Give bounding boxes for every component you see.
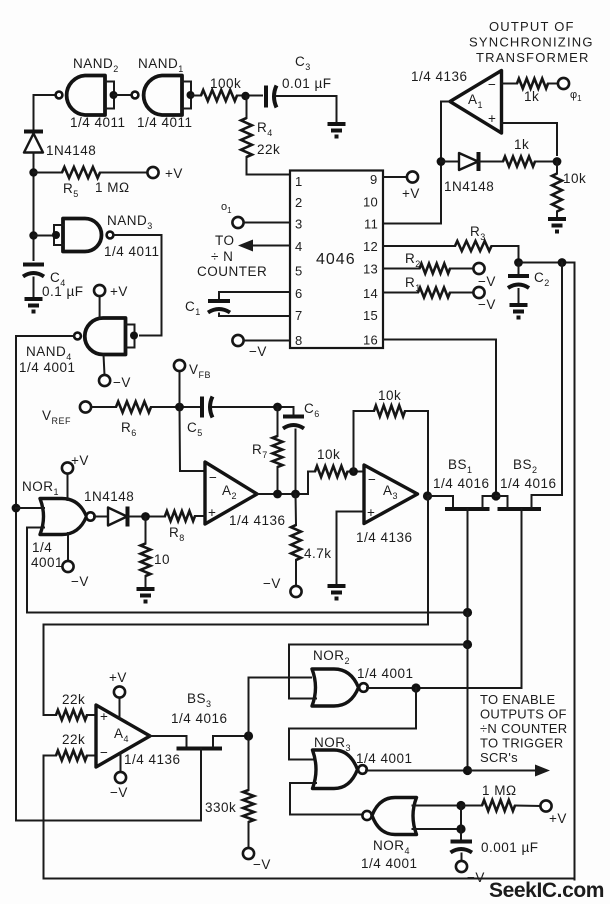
node junction NOR2 output bbox=[411, 683, 420, 692]
gate NOR1 bbox=[40, 499, 95, 535]
wire R3 to C2 node bbox=[492, 246, 519, 263]
wire node to R5 bbox=[34, 172, 63, 174]
wire pin16 to BS1/BS2 node bbox=[383, 340, 496, 497]
wire arrow to SCR trigger bbox=[468, 770, 538, 772]
svg-text:OUTPUT OF: OUTPUT OF bbox=[489, 19, 575, 34]
wire left bus to NAND3 bbox=[33, 196, 35, 260]
wire 330k to -V terminal bbox=[248, 822, 250, 848]
wire A4 +V stem bbox=[119, 698, 121, 719]
wire 22k to A4 plus bbox=[87, 714, 96, 716]
svg-text:1k: 1k bbox=[524, 89, 539, 104]
wire R5 to +V terminal bbox=[100, 172, 148, 174]
wire NOR2 lower input from enable bus bbox=[289, 645, 468, 699]
gate NOR2 bbox=[312, 669, 368, 706]
svg-text:+V: +V bbox=[110, 284, 128, 299]
wire R8 to A2 plus input bbox=[195, 515, 205, 517]
wire C3 to ground bbox=[277, 96, 337, 122]
svg-text:4: 4 bbox=[295, 239, 303, 254]
resistor 10k (A3 feedback) bbox=[374, 406, 405, 417]
wire A3 plus input to ground bbox=[337, 512, 365, 585]
resistor 330k bbox=[243, 790, 254, 822]
svg-text:−: − bbox=[368, 472, 376, 487]
node junction left bus / NOR1 input bbox=[12, 504, 21, 513]
svg-text:10k: 10k bbox=[378, 388, 401, 403]
node junction diode/R8/10 bbox=[141, 512, 150, 521]
gate NOR3 bbox=[313, 750, 367, 789]
wire A3 output to BS1 bbox=[428, 496, 454, 507]
svg-text:÷N COUNTER: ÷N COUNTER bbox=[480, 721, 567, 736]
wire diode to 1k bbox=[479, 161, 504, 163]
svg-text:+V: +V bbox=[165, 166, 183, 181]
wire NOR4 upper input bbox=[413, 805, 462, 807]
IC U1 4046 bbox=[290, 171, 383, 349]
wire 10 ohm top lead bbox=[145, 517, 147, 544]
wire C5 to R7/C6 bbox=[213, 406, 294, 408]
resistor 1k (A1 input) bbox=[517, 79, 548, 89]
node junction NOR4 upper input bbox=[456, 801, 465, 810]
resistor R8 bbox=[165, 511, 195, 521]
wire NOR1 -V stem bbox=[67, 533, 69, 561]
capacitor C1 bbox=[208, 301, 230, 313]
terminal +V (R5) bbox=[147, 167, 158, 178]
svg-text:1/4 4136: 1/4 4136 bbox=[356, 530, 413, 545]
svg-text:8: 8 bbox=[295, 333, 303, 348]
wire C5 node to A2 inverting input bbox=[180, 407, 206, 471]
terminal -V (NOR1) bbox=[62, 561, 73, 572]
wire A1 inverting input to 1k bbox=[502, 83, 518, 85]
wire NOR4 lower input bbox=[413, 828, 462, 830]
svg-text:SYNCHRONIZING: SYNCHRONIZING bbox=[469, 35, 594, 50]
wire 10 to ground bbox=[145, 576, 147, 587]
terminal +V (NAND4) bbox=[94, 285, 105, 296]
node junction diode/R5 bbox=[29, 168, 37, 176]
resistor 1k (feedback) bbox=[503, 157, 535, 167]
resistor 10k (A1) bbox=[552, 174, 562, 212]
terminal -V (A4) bbox=[115, 772, 126, 783]
svg-text:0.01 µF: 0.01 µF bbox=[282, 76, 332, 91]
transistor BS3 (1/4 4016 switch) bbox=[177, 736, 249, 821]
node junction BS1 gate / NOR2 lower input bus bbox=[463, 640, 472, 649]
wire NOR1 +V stem bbox=[67, 473, 69, 500]
svg-text:1N4148: 1N4148 bbox=[444, 179, 494, 194]
wire R4 to 4046 pin1 bbox=[247, 157, 291, 175]
wire A4 -V stem bbox=[120, 753, 122, 772]
capacitor C2 bbox=[508, 263, 529, 304]
wire C1 to pin7 bbox=[219, 314, 290, 317]
wire pin4 arrow to divide-N counter bbox=[251, 245, 290, 247]
wire R1 to -V terminal bbox=[450, 292, 474, 294]
wire diode to R5 node bbox=[33, 153, 35, 197]
wire feedback to A3 output bbox=[405, 411, 428, 496]
svg-text:1/4 4001: 1/4 4001 bbox=[356, 751, 413, 766]
wire 1k to phi1 terminal bbox=[548, 83, 558, 85]
svg-text:10k: 10k bbox=[563, 171, 586, 186]
wire 4.7k top lead bbox=[295, 494, 298, 525]
node junction A1 output / diode bbox=[437, 157, 446, 166]
wire node to 10k bbox=[556, 162, 558, 174]
svg-text:1 MΩ: 1 MΩ bbox=[482, 783, 517, 798]
svg-text:1k: 1k bbox=[514, 137, 529, 152]
svg-text:11: 11 bbox=[364, 217, 378, 232]
wire NAND4 -V stem bbox=[104, 355, 105, 376]
ground (C4) bbox=[25, 299, 43, 312]
svg-text:SCR's: SCR's bbox=[480, 750, 518, 765]
terminal -V (R2) bbox=[473, 263, 484, 274]
terminal +V (A4) bbox=[114, 686, 125, 697]
node junction NOR4 lower input bbox=[456, 824, 465, 833]
node junction BS1 gate / NOR1 bus bbox=[463, 608, 472, 617]
svg-text:22k: 22k bbox=[62, 692, 85, 707]
wire NAND2 bracket to NAND1 bubble bbox=[114, 94, 131, 96]
svg-text:13: 13 bbox=[363, 262, 378, 277]
wire C4 to ground bbox=[33, 278, 35, 298]
resistor R5 bbox=[62, 167, 100, 178]
svg-text:−V: −V bbox=[110, 785, 128, 800]
resistor 10k (A3 input) bbox=[315, 466, 348, 477]
svg-text:12: 12 bbox=[363, 239, 378, 254]
wire BS1 gate to NOR2 bus bbox=[467, 613, 469, 645]
resistor 1M (NOR4) bbox=[482, 800, 515, 811]
terminal +V (pin9) bbox=[407, 171, 418, 182]
svg-text:−: − bbox=[100, 745, 108, 760]
resistor 4.7k bbox=[291, 525, 301, 560]
op-amp A4 bbox=[96, 705, 150, 767]
wire 22k to A4 minus bbox=[87, 755, 96, 757]
svg-text:14: 14 bbox=[363, 286, 378, 301]
diode 1N4148 (left bus) bbox=[24, 132, 43, 153]
transistor BS2 (1/4 4016 switch) bbox=[496, 263, 562, 689]
svg-text:0.1 µF: 0.1 µF bbox=[42, 284, 84, 299]
node junction A3 output bbox=[423, 491, 432, 500]
op-amp A2 bbox=[205, 462, 257, 524]
transistor BS1 (1/4 4016 switch) bbox=[445, 496, 496, 613]
op-amp A1 (points left) bbox=[450, 71, 502, 134]
svg-text:+V: +V bbox=[71, 453, 89, 468]
svg-text:1/4 4136: 1/4 4136 bbox=[124, 752, 181, 767]
svg-text:1N4148: 1N4148 bbox=[46, 143, 96, 158]
wire R2 to -V terminal bbox=[450, 268, 474, 270]
ground (A3 plus) bbox=[328, 586, 346, 599]
svg-text:−V: −V bbox=[71, 574, 89, 589]
svg-text:−V: −V bbox=[249, 344, 267, 359]
svg-text:1/4 4001: 1/4 4001 bbox=[361, 856, 418, 871]
svg-text:−V: −V bbox=[113, 375, 131, 390]
wire A2 output to A3 input bbox=[257, 472, 315, 495]
svg-text:15: 15 bbox=[363, 308, 378, 323]
svg-text:1/4 4001: 1/4 4001 bbox=[357, 666, 414, 681]
svg-text:−V: −V bbox=[467, 870, 485, 885]
svg-text:1/4 4016: 1/4 4016 bbox=[171, 711, 228, 726]
wire VFB stem bbox=[179, 371, 181, 407]
wire NOR3 lower input from NOR4 output bbox=[290, 783, 363, 815]
wire C2 node to right bus bbox=[519, 263, 575, 880]
ground (C3) bbox=[328, 124, 346, 137]
node junction C2 bbox=[514, 258, 523, 267]
svg-text:1/4: 1/4 bbox=[32, 540, 52, 555]
resistor 22k (A4 minus input) bbox=[56, 751, 87, 761]
gate NOR4 (points left) bbox=[362, 798, 416, 835]
resistor R6 bbox=[116, 402, 151, 413]
wire pin13 to R2 bbox=[383, 268, 420, 270]
resistor 100k bbox=[201, 90, 237, 101]
wire BS1 gate to NOR3 output bbox=[467, 645, 469, 771]
wire NOR1 lower input feedback to enable bus bbox=[27, 528, 468, 613]
svg-text:1 MΩ: 1 MΩ bbox=[95, 180, 130, 195]
wire NOR1 upper input bbox=[16, 507, 44, 509]
wire pin9 to +V bbox=[383, 176, 407, 178]
resistor R7 bbox=[273, 436, 283, 467]
wire pin6 to C1 bbox=[219, 292, 290, 299]
node junction NOR3 output / arrow bbox=[463, 766, 472, 775]
svg-text:16: 16 bbox=[363, 333, 378, 348]
svg-text:7: 7 bbox=[295, 308, 303, 323]
svg-text:10: 10 bbox=[363, 195, 378, 210]
svg-text:1/4 4016: 1/4 4016 bbox=[433, 476, 490, 491]
node junction C6/4.7k bbox=[291, 490, 300, 499]
wire 1k to node bbox=[535, 161, 557, 163]
svg-text:OUTPUTS OF: OUTPUTS OF bbox=[480, 707, 567, 722]
wire R7 top lead bbox=[277, 407, 279, 436]
wire NOR3 output to enable node bbox=[366, 770, 468, 772]
wire NAND1 to resistor 100k bbox=[191, 95, 201, 97]
svg-text:1/4 4011: 1/4 4011 bbox=[70, 115, 126, 130]
node junction feedback/10k bbox=[553, 157, 562, 166]
wire 10k to A3 inverting input bbox=[348, 471, 365, 473]
wire pin14 to R1 bbox=[383, 292, 418, 294]
svg-text:+: + bbox=[208, 505, 216, 520]
wire BS3 node up to NOR2 upper input bbox=[249, 678, 312, 737]
wire pin3 bbox=[244, 222, 291, 224]
node junction BS1/BS2/pin16 bbox=[491, 491, 500, 500]
wire R7 bottom lead to A2 output wire bbox=[277, 467, 279, 494]
arrowhead pin4 bbox=[238, 240, 253, 252]
wire A1 output down left side bbox=[383, 102, 450, 224]
svg-text:9: 9 bbox=[370, 172, 378, 187]
svg-text:−: − bbox=[488, 77, 496, 92]
diode 1N4148 (A1 feedback) bbox=[459, 152, 479, 171]
svg-text:4046: 4046 bbox=[316, 251, 356, 268]
svg-text:−: − bbox=[209, 470, 217, 485]
resistor 22k (A4 plus input) bbox=[56, 710, 87, 720]
svg-text:TRANSFORMER: TRANSFORMER bbox=[476, 50, 590, 65]
svg-text:1/4 4016: 1/4 4016 bbox=[500, 476, 557, 491]
terminal -V (NAND4) bbox=[99, 375, 110, 386]
wire NOR4 input tie bbox=[460, 806, 462, 841]
op-amp A3 bbox=[364, 465, 418, 524]
capacitor C4 bbox=[23, 265, 44, 277]
terminal -V (4.7k) bbox=[290, 586, 301, 597]
wire NAND4 output to left feedback bus bbox=[16, 336, 201, 821]
resistor R4 bbox=[241, 118, 252, 157]
svg-text:0.001 µF: 0.001 µF bbox=[481, 840, 539, 855]
resistor R2 bbox=[420, 264, 451, 274]
terminal o1 (pin3) bbox=[232, 217, 243, 228]
svg-text:÷ N: ÷ N bbox=[211, 249, 233, 264]
wire 4.7k to -V terminal bbox=[295, 560, 297, 586]
wire NAND4 +V stem bbox=[99, 296, 101, 318]
wire node to diode anode bbox=[441, 161, 459, 163]
svg-text:1/4 4011: 1/4 4011 bbox=[104, 244, 160, 259]
terminal +V (NOR1) bbox=[62, 462, 73, 473]
wire diode to R8 node bbox=[128, 516, 166, 518]
terminal -V (R1) bbox=[473, 287, 484, 298]
node junction BS2 right riser bbox=[558, 258, 567, 267]
svg-text:+: + bbox=[488, 111, 496, 126]
svg-text:2: 2 bbox=[295, 195, 303, 210]
svg-text:22k: 22k bbox=[257, 142, 280, 157]
svg-text:10k: 10k bbox=[317, 447, 340, 462]
wire A3 feedback up bbox=[354, 411, 375, 472]
svg-text:−V: −V bbox=[478, 297, 496, 312]
wire pin8 bbox=[244, 340, 291, 342]
wire NOR2 output to BS2 gate bbox=[367, 687, 522, 689]
node junction 100k/C3/R4 bbox=[241, 92, 249, 100]
svg-text:10: 10 bbox=[154, 552, 170, 567]
resistor 10 bbox=[141, 544, 151, 577]
svg-text:1/4 4136: 1/4 4136 bbox=[229, 513, 286, 528]
svg-text:TO TRIGGER: TO TRIGGER bbox=[480, 736, 563, 751]
wire VREF to R6 bbox=[91, 406, 116, 408]
svg-text:1: 1 bbox=[295, 174, 303, 189]
wire NAND3 output to NAND4 input bbox=[114, 235, 162, 336]
svg-text:TO: TO bbox=[215, 233, 235, 248]
terminal VREF bbox=[80, 401, 91, 412]
wire A3 output down to A4 bus bbox=[44, 496, 429, 715]
wire pin12 to R3 bbox=[383, 245, 455, 247]
terminal +V (1M) bbox=[540, 800, 551, 811]
node junction BS3 output bbox=[244, 731, 253, 740]
diode 1N4148 (NOR1) bbox=[108, 507, 128, 527]
node junction bus/NAND3 input bbox=[29, 231, 37, 239]
capacitor 0.001uF bbox=[451, 842, 473, 862]
terminal VFB bbox=[174, 360, 185, 371]
svg-text:+V: +V bbox=[549, 811, 567, 826]
node junction R7/A2 out bbox=[273, 490, 282, 499]
svg-text:3: 3 bbox=[295, 217, 303, 232]
wire 1M to +V terminal bbox=[515, 805, 541, 808]
wire node to 1M bbox=[461, 805, 482, 807]
wire lower 22k to bottom bus bbox=[44, 756, 575, 879]
capacitor C3 bbox=[266, 86, 277, 108]
wire node to R4 bbox=[246, 96, 248, 118]
svg-text:1/4 4136: 1/4 4136 bbox=[411, 69, 468, 84]
svg-text:TO ENABLE: TO ENABLE bbox=[480, 692, 555, 707]
svg-text:1/4 4001: 1/4 4001 bbox=[19, 360, 76, 375]
svg-text:4001: 4001 bbox=[31, 555, 63, 570]
svg-text:SeekIC.com: SeekIC.com bbox=[489, 879, 604, 902]
svg-text:COUNTER: COUNTER bbox=[197, 264, 267, 279]
resistor R3 bbox=[455, 241, 492, 251]
svg-text:−V: −V bbox=[253, 857, 271, 872]
wire R6 to C5 node bbox=[151, 406, 201, 408]
capacitor C6 bbox=[283, 407, 304, 494]
svg-text:1N4148: 1N4148 bbox=[84, 489, 134, 504]
wire 10k to ground bbox=[556, 212, 558, 218]
svg-text:6: 6 bbox=[295, 286, 303, 301]
ground (C2) bbox=[510, 305, 528, 318]
ground (10k A1) bbox=[548, 219, 566, 232]
svg-text:330k: 330k bbox=[205, 800, 236, 815]
wire 100k to node bbox=[237, 95, 262, 97]
arrowhead SCR trigger bbox=[535, 765, 550, 777]
wire bus to NAND3 bracket bbox=[34, 235, 55, 237]
nand-gate NAND4 bbox=[74, 318, 138, 355]
node junction A3 inverting input bbox=[349, 467, 358, 476]
svg-text:1/4 4011: 1/4 4011 bbox=[137, 115, 193, 130]
svg-text:+V: +V bbox=[109, 670, 127, 685]
svg-text:4.7k: 4.7k bbox=[304, 546, 332, 561]
svg-text:22k: 22k bbox=[62, 732, 85, 747]
resistor R1 bbox=[418, 288, 450, 298]
svg-text:−V: −V bbox=[263, 576, 281, 591]
nand-gate NAND2 bbox=[56, 76, 118, 116]
svg-text:+: + bbox=[100, 709, 108, 724]
capacitor C5 bbox=[202, 397, 213, 418]
nand-gate NAND1 bbox=[132, 76, 195, 116]
terminal -V (0.001uF) bbox=[456, 861, 467, 872]
svg-text:+: + bbox=[367, 505, 375, 520]
wire NOR1 output to diode bbox=[94, 516, 108, 518]
terminal -V (330k) bbox=[243, 848, 254, 859]
node junction R7 top bbox=[273, 403, 282, 412]
svg-text:+V: +V bbox=[402, 186, 420, 201]
wire 330k top lead bbox=[248, 736, 250, 790]
ground (10) bbox=[137, 589, 155, 602]
svg-text:5: 5 bbox=[295, 264, 303, 279]
wire A4 output to BS3 bbox=[150, 736, 187, 747]
nand-gate NAND3 bbox=[52, 219, 113, 252]
node junction VFB/C5 bbox=[175, 403, 184, 412]
wire NOR2 output cross-couple to NOR3 upper input bbox=[289, 688, 416, 760]
terminal phi1 bbox=[558, 78, 569, 89]
svg-text:100k: 100k bbox=[210, 76, 241, 91]
terminal -V (pin8) bbox=[232, 335, 243, 346]
wire A1 noninverting input to right node bbox=[502, 123, 558, 155]
wire NAND2 output to left bus bbox=[34, 95, 55, 129]
